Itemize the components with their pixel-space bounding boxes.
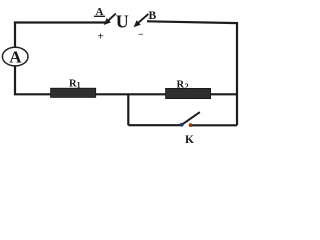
svg-text:A: A [9, 48, 22, 67]
svg-text:+: + [97, 31, 103, 43]
svg-text:K: K [185, 134, 194, 146]
svg-text:U: U [116, 12, 129, 32]
svg-text:B: B [148, 10, 156, 22]
svg-text:2: 2 [185, 82, 189, 91]
svg-text:1: 1 [77, 81, 81, 90]
svg-text:R: R [177, 79, 185, 90]
